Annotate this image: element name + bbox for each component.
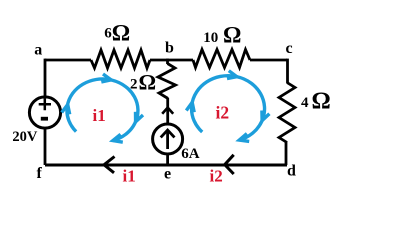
V1 plus sign [39, 98, 51, 110]
node c [286, 40, 293, 57]
mesh current i2 blue arc [186, 71, 269, 142]
wire R3 down to I1 source [166, 98, 169, 126]
I1 arrow up inside [166, 131, 169, 149]
resistor R4 4ohm zigzag [279, 83, 295, 143]
V1 minus sign [41, 117, 48, 121]
svg-text:Ω: Ω [139, 70, 157, 95]
svg-text:f: f [37, 165, 43, 182]
label 4 ohm [301, 89, 331, 115]
current source I1 circle [153, 124, 183, 154]
label mesh current i1 [93, 106, 106, 125]
label 6A [181, 146, 200, 162]
i2 arc terminal arrowhead southwest [239, 134, 249, 142]
wire R2 to node c [250, 59, 287, 62]
wire V1 to node f [44, 127, 47, 165]
i1 arc arrowhead east (down) [136, 112, 144, 122]
svg-text:c: c [286, 40, 293, 57]
svg-text:d: d [287, 162, 296, 179]
label branch current i2 (bottom) [210, 167, 223, 186]
svg-text:a: a [34, 42, 42, 59]
bottom branch arrow left (f side) [104, 157, 115, 173]
svg-text:b: b [165, 40, 174, 57]
wire R1 to node b to R2 [150, 59, 193, 62]
i2 arc arrowhead north (right) [227, 71, 237, 79]
i2 arc arrowhead east (down) [262, 111, 270, 121]
i1 arc arrowhead west (up) [62, 105, 70, 115]
wire a to R1 (top left) [45, 59, 91, 62]
svg-text:4: 4 [301, 95, 309, 111]
bottom wire d to f [45, 164, 287, 167]
svg-text:Ω: Ω [223, 23, 241, 48]
label 2 ohm [130, 70, 156, 95]
resistor R1 6ohm zigzag [91, 50, 150, 68]
label 20V [12, 129, 38, 145]
wire node b down to R3 [166, 59, 169, 64]
svg-text:6A: 6A [181, 146, 200, 162]
wire I1 to node e [166, 153, 169, 165]
svg-text:i2: i2 [216, 103, 230, 123]
i2 arc arrowhead west (up) [186, 102, 194, 112]
label branch current i1 (bottom) [123, 167, 136, 186]
svg-text:e: e [164, 165, 171, 182]
node a [34, 42, 42, 59]
i1 arc arrowhead north (right) [101, 74, 111, 82]
label 6 ohm [104, 21, 130, 46]
node f [37, 165, 43, 182]
svg-text:Ω: Ω [312, 89, 331, 115]
label 10 ohm [203, 23, 241, 48]
voltage source V1 circle [29, 97, 60, 128]
svg-text:10: 10 [203, 30, 218, 46]
i1 arc terminal arrowhead southwest [113, 134, 123, 142]
bottom branch arrow left (d side) [225, 155, 234, 174]
wire R4 to node d corner [285, 142, 288, 165]
node e [164, 165, 171, 182]
wire node a down to V1 [44, 59, 47, 98]
svg-text:20V: 20V [12, 129, 38, 145]
svg-text:Ω: Ω [112, 21, 130, 46]
current direction arrowhead up on middle branch [162, 108, 173, 114]
label mesh current i2 [216, 103, 230, 123]
svg-text:i1: i1 [123, 167, 136, 186]
node b [165, 40, 174, 57]
svg-text:i1: i1 [93, 106, 106, 125]
resistor R3 2ohm zigzag [158, 64, 176, 99]
node d [287, 162, 296, 179]
svg-text:i2: i2 [210, 167, 223, 186]
wire node c down to R4 [286, 59, 289, 83]
resistor R2 10ohm zigzag [193, 50, 250, 68]
mesh current i1 blue arc [62, 74, 143, 142]
